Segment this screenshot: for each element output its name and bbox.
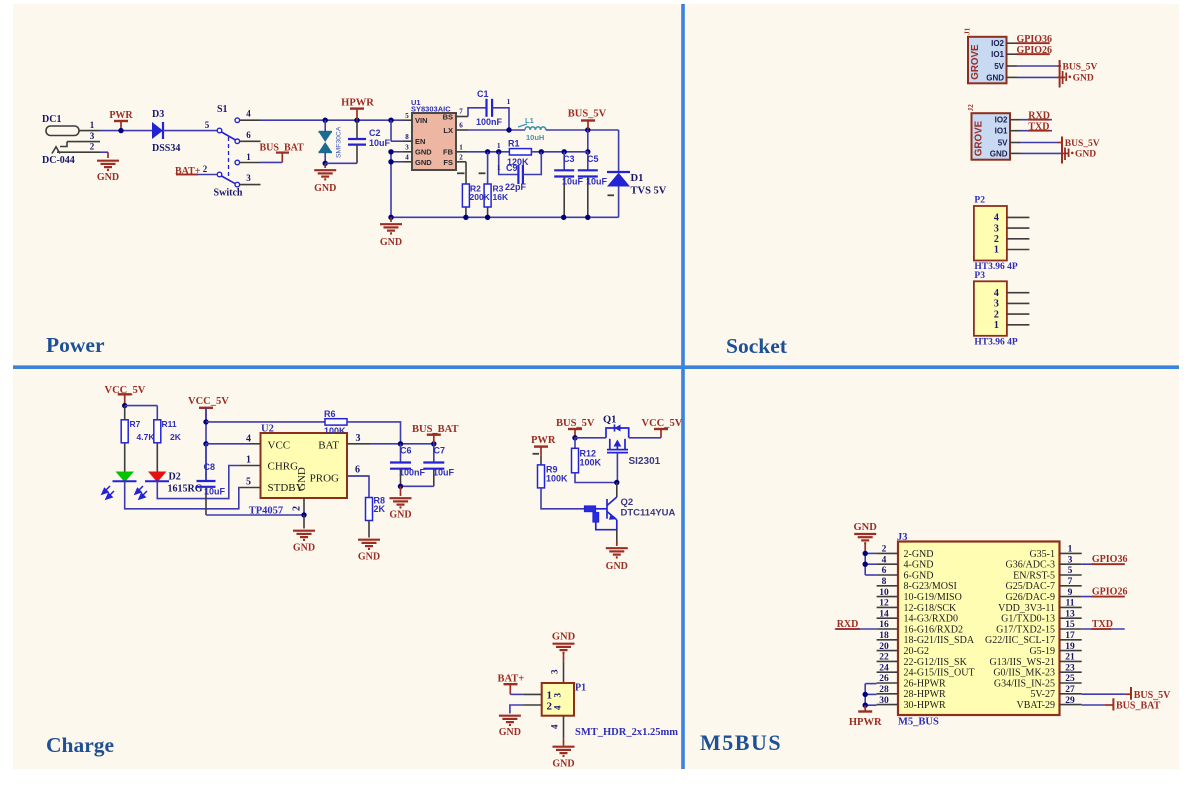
LED D2 red half	[156, 443, 158, 472]
svg-text:2K: 2K	[170, 432, 182, 442]
svg-text:TXD: TXD	[1028, 122, 1049, 133]
svg-text:GND: GND	[314, 183, 336, 194]
svg-text:C6: C6	[400, 446, 412, 456]
svg-text:DC-044: DC-044	[42, 155, 75, 166]
net label GPIO36 at J3 pin3	[1082, 563, 1125, 565]
capacitor C8 10uF	[205, 444, 207, 481]
inductor L1 10uH	[525, 127, 546, 130]
ground GND under U1 rail	[390, 217, 392, 222]
svg-text:GND: GND	[296, 467, 308, 491]
svg-text:2: 2	[292, 506, 303, 511]
svg-text:29: 29	[1065, 696, 1075, 706]
svg-text:BUS_5V: BUS_5V	[556, 418, 595, 429]
svg-text:DSS34: DSS34	[152, 143, 180, 154]
svg-text:R6: R6	[324, 409, 336, 419]
svg-text:1615RG: 1615RG	[168, 484, 203, 495]
P1 pin 3 stub top	[563, 662, 565, 683]
wire DC1 pin1 to PWR node	[99, 130, 152, 132]
svg-text:GND: GND	[380, 237, 402, 248]
svg-text:16-G16/RXD2: 16-G16/RXD2	[904, 624, 963, 635]
junction TVS bottom	[323, 161, 328, 166]
svg-text:M5BUS: M5BUS	[700, 730, 782, 755]
switch pin 3 stub	[240, 184, 261, 186]
svg-text:17: 17	[1065, 631, 1075, 641]
svg-text:BUS_5V: BUS_5V	[1065, 139, 1100, 149]
svg-text:R7: R7	[130, 419, 141, 429]
ground GND under C6	[400, 486, 402, 496]
J3 right pin names	[985, 549, 1055, 711]
DC1 pin 2 contact	[52, 147, 60, 154]
svg-text:18-G21/IIS_SDA: 18-G21/IIS_SDA	[904, 635, 975, 646]
wire J3 HPWR strap pins 26/28/30	[865, 683, 876, 685]
svg-text:G22/IIC_SCL-17: G22/IIC_SCL-17	[985, 635, 1055, 646]
svg-text:J1: J1	[964, 27, 972, 35]
svg-text:GND: GND	[97, 172, 119, 183]
wire BUS_5V to Q1 source	[575, 437, 606, 439]
svg-text:C3: C3	[563, 154, 575, 164]
svg-text:28-HPWR: 28-HPWR	[904, 689, 947, 700]
svg-text:26: 26	[879, 674, 889, 684]
ground GND below P1	[563, 739, 565, 746]
svg-text:5: 5	[205, 120, 210, 130]
svg-text:S1: S1	[217, 104, 228, 115]
svg-text:100K: 100K	[546, 474, 568, 484]
svg-text:10-G19/MISO: 10-G19/MISO	[904, 592, 962, 603]
svg-text:C7: C7	[434, 446, 446, 456]
svg-text:Power: Power	[46, 333, 105, 357]
LED D2 green half	[124, 443, 126, 472]
svg-text:5: 5	[246, 477, 251, 488]
svg-text:7: 7	[459, 108, 463, 116]
svg-text:GND: GND	[293, 543, 315, 554]
resistor R8 2K	[347, 476, 369, 498]
svg-text:5V-27: 5V-27	[1030, 689, 1055, 700]
svg-text:DTC114YUA: DTC114YUA	[621, 508, 676, 519]
svg-text:4: 4	[405, 154, 409, 162]
svg-text:GND: GND	[499, 727, 521, 738]
svg-text:D1: D1	[631, 173, 644, 184]
U2 pin 5 stub	[240, 487, 261, 489]
svg-text:L1: L1	[525, 116, 534, 125]
svg-text:P3: P3	[974, 271, 985, 281]
svg-text:G25/DAC-7: G25/DAC-7	[1006, 581, 1055, 592]
svg-text:C1: C1	[477, 89, 489, 99]
capacitor C9 22pF	[499, 152, 519, 175]
svg-text:2: 2	[994, 309, 999, 320]
no-ERC mark R3	[479, 172, 486, 174]
svg-text:27: 27	[1065, 685, 1075, 695]
svg-text:GND: GND	[358, 552, 380, 563]
svg-text:GND: GND	[990, 149, 1008, 158]
U2 pin 2 GND stub	[303, 498, 305, 515]
svg-text:4: 4	[994, 213, 999, 224]
svg-text:13: 13	[1065, 609, 1075, 619]
wire J3 GND strap pins 2/4/6	[864, 553, 866, 575]
net label TXD at J3 pin15	[1082, 628, 1125, 630]
wire C6/C7 bottoms	[401, 485, 434, 487]
U1 pin 7 BS stub	[456, 116, 468, 118]
connector J1 GROVE socket	[968, 37, 1007, 84]
svg-text:100nF: 100nF	[399, 468, 426, 478]
svg-text:D3: D3	[152, 109, 164, 120]
wire VCC to U2 pin4	[206, 443, 249, 445]
svg-text:6-GND: 6-GND	[904, 570, 934, 581]
svg-text:2: 2	[90, 142, 95, 152]
svg-text:C5: C5	[587, 154, 599, 164]
U2 pin 1 stub	[240, 465, 261, 467]
svg-text:2K: 2K	[374, 504, 386, 514]
svg-text:BUS_BAT: BUS_BAT	[1116, 701, 1161, 712]
section divider horizontal	[13, 365, 1179, 369]
U1 pin 5 VIN stub	[404, 119, 413, 121]
svg-text:GND: GND	[415, 158, 432, 167]
svg-text:6: 6	[882, 566, 887, 576]
svg-text:22pF: 22pF	[505, 182, 527, 192]
transistor Q2 DTC114YUA	[616, 483, 618, 498]
svg-text:GND: GND	[552, 632, 576, 643]
svg-text:24-G15/IIS_OUT: 24-G15/IIS_OUT	[904, 668, 975, 679]
switch link dashed	[228, 137, 230, 180]
svg-text:VDD_3V3-11: VDD_3V3-11	[998, 603, 1055, 614]
net label RXD on J2 IO2	[1021, 119, 1053, 121]
svg-text:5: 5	[1068, 566, 1073, 576]
svg-text:D2: D2	[169, 472, 181, 483]
Q2 emitter arrow	[609, 515, 616, 520]
Q1 body diode arrow	[615, 425, 621, 432]
svg-text:BUS_5V: BUS_5V	[1063, 63, 1098, 73]
svg-text:VBAT-29: VBAT-29	[1016, 700, 1055, 711]
wire DC1 pin2 to ground	[100, 151, 108, 153]
DC1 pin 1	[79, 130, 99, 132]
svg-text:8-G23/MOSI: 8-G23/MOSI	[904, 581, 957, 592]
wire Q2 emitter to ground	[616, 530, 618, 545]
svg-text:C9: C9	[506, 163, 518, 173]
svg-text:100K: 100K	[580, 458, 602, 468]
svg-text:BAT+: BAT+	[498, 674, 525, 685]
svg-text:14-G3/RXD0: 14-G3/RXD0	[904, 614, 958, 625]
J3 left pin stubs and numbers	[877, 552, 898, 554]
svg-text:BUS_5V: BUS_5V	[568, 109, 607, 120]
svg-text:VCC: VCC	[268, 440, 291, 452]
net label GPIO36 on J1 IO2	[1017, 42, 1050, 44]
wire switch pin1 to BUS_BAT	[261, 161, 283, 163]
svg-text:GND: GND	[986, 73, 1004, 82]
svg-text:3: 3	[246, 173, 251, 183]
svg-text:PROG: PROG	[310, 473, 339, 485]
svg-text:1: 1	[497, 164, 501, 172]
no-ERC mark D1	[608, 194, 615, 196]
svg-text:11: 11	[1066, 599, 1075, 609]
svg-text:1: 1	[497, 142, 501, 150]
svg-text:G13/IIS_WS-21: G13/IIS_WS-21	[989, 657, 1055, 668]
svg-text:IO1: IO1	[995, 127, 1008, 136]
svg-text:5V: 5V	[994, 62, 1004, 71]
wire BUS_5V down to output net	[587, 130, 589, 152]
svg-text:BAT+: BAT+	[175, 166, 201, 177]
P1 pin 1 stub	[523, 693, 542, 695]
svg-text:HPWR: HPWR	[341, 98, 374, 109]
svg-text:10: 10	[879, 588, 889, 598]
connector J2 GROVE socket	[972, 113, 1011, 160]
svg-text:1: 1	[507, 98, 511, 106]
svg-text:22-G12/IIS_SK: 22-G12/IIS_SK	[904, 657, 968, 668]
svg-text:1: 1	[246, 152, 251, 162]
svg-text:GND: GND	[854, 522, 878, 533]
resistor R12 100K	[574, 438, 576, 449]
wire P1 pin2 to ground	[510, 705, 523, 714]
U1 pin 4 GND stub	[404, 161, 413, 163]
svg-text:IO2: IO2	[991, 39, 1004, 48]
svg-text:10uF: 10uF	[204, 487, 226, 497]
switch blade upper	[222, 132, 236, 140]
svg-text:8: 8	[882, 577, 887, 587]
ground GND under R8	[358, 540, 380, 549]
svg-text:Q2: Q2	[621, 497, 634, 508]
svg-text:SI2301: SI2301	[629, 456, 661, 467]
svg-text:21: 21	[1065, 653, 1075, 663]
svg-text:25: 25	[1065, 674, 1075, 684]
J3 left pin names	[904, 549, 975, 711]
svg-text:3: 3	[356, 433, 361, 444]
svg-text:HT3.96 4P: HT3.96 4P	[974, 337, 1017, 347]
svg-text:GPIO36: GPIO36	[1017, 34, 1053, 45]
svg-text:4: 4	[994, 288, 999, 299]
svg-text:2: 2	[882, 545, 887, 555]
svg-text:G1/TXD0-13: G1/TXD0-13	[1001, 614, 1055, 625]
TVS diode SMF30CA	[319, 132, 333, 142]
svg-text:5V: 5V	[998, 139, 1008, 148]
svg-text:24: 24	[879, 663, 889, 673]
svg-text:10uF: 10uF	[369, 138, 391, 148]
Q2 base resistor horizontal	[585, 506, 596, 512]
net label GPIO26 at J3 pin9	[1082, 596, 1125, 598]
svg-text:M5_BUS: M5_BUS	[898, 717, 939, 728]
svg-text:1: 1	[994, 320, 999, 331]
switch pin 6 stub	[240, 140, 261, 142]
capacitor C1 100nF bootstrap	[468, 108, 487, 117]
net label TXD on J2 IO1	[1021, 130, 1053, 132]
svg-text:GPIO26: GPIO26	[1017, 45, 1053, 56]
svg-text:1: 1	[246, 455, 251, 466]
wire U1 GND pins to ground rail	[391, 151, 404, 153]
net label GPIO26 on J1 IO1	[1017, 53, 1050, 55]
svg-text:Switch: Switch	[214, 188, 243, 199]
junction HPWR	[354, 118, 359, 123]
svg-text:1: 1	[90, 120, 95, 130]
svg-text:G5-19: G5-19	[1029, 646, 1055, 657]
svg-text:3: 3	[405, 144, 409, 152]
J3 right pin stubs and numbers	[1060, 552, 1082, 554]
svg-text:RXD: RXD	[1028, 111, 1050, 122]
port BUS_BAT at J3 pin29	[1082, 704, 1105, 706]
svg-text:PWR: PWR	[531, 435, 556, 446]
svg-text:10uH: 10uH	[526, 133, 544, 142]
svg-text:GND: GND	[1073, 74, 1094, 84]
P1 pin 4 stub bottom	[563, 716, 565, 739]
svg-text:GND: GND	[552, 759, 574, 770]
resistor R3 16K	[487, 152, 489, 184]
U1 pin 8 EN stub	[390, 120, 392, 141]
U2 pin 6 PROG stub	[347, 475, 369, 477]
wire VCC to R6	[206, 421, 325, 423]
U2 pin 4 stub	[249, 443, 261, 445]
svg-text:14: 14	[879, 609, 889, 619]
svg-text:18: 18	[879, 631, 889, 641]
diode D3 DSS34	[152, 122, 163, 139]
capacitor C7 10uF	[433, 444, 435, 463]
svg-text:FB: FB	[443, 148, 454, 157]
svg-text:BAT: BAT	[318, 440, 339, 452]
resistor R7 4.7K	[121, 420, 128, 443]
svg-text:P1: P1	[575, 683, 586, 694]
svg-text:G17/TXD2-15: G17/TXD2-15	[996, 624, 1055, 635]
svg-text:EN: EN	[415, 137, 425, 146]
LED D2 green arrows	[102, 486, 114, 499]
svg-text:16K: 16K	[493, 192, 509, 202]
wire green LED to STDBY	[125, 481, 240, 509]
svg-text:GROVE: GROVE	[974, 120, 985, 156]
svg-text:BUS_5V: BUS_5V	[1134, 690, 1171, 701]
wire Q1 drain to VCC_5V	[629, 437, 661, 439]
wire C8 to U2 GND	[206, 514, 304, 516]
wire red LED to CHRG	[157, 466, 240, 499]
Q2 base-emitter resistor vertical	[593, 513, 599, 523]
svg-text:G36/ADC-3: G36/ADC-3	[1006, 560, 1055, 571]
svg-text:SMT_HDR_2x1.25mm: SMT_HDR_2x1.25mm	[575, 727, 678, 738]
wire VCC_5V column	[205, 408, 207, 481]
svg-text:4: 4	[882, 555, 887, 565]
power port HPWR at J3	[864, 705, 866, 711]
svg-text:4: 4	[553, 705, 563, 710]
svg-text:30-HPWR: 30-HPWR	[904, 700, 947, 711]
svg-text:1: 1	[459, 144, 463, 152]
capacitor C6 100nF	[400, 444, 402, 463]
svg-text:C2: C2	[369, 128, 381, 138]
no-ERC mark near PWR	[533, 453, 540, 455]
svg-text:PWR: PWR	[109, 110, 133, 121]
svg-text:3: 3	[994, 223, 999, 234]
ground GND at DC jack	[97, 161, 119, 170]
wire L1 to BUS_5V node	[546, 129, 619, 131]
svg-text:J2: J2	[967, 104, 975, 112]
svg-text:28: 28	[879, 685, 889, 695]
ground GND left of P1	[499, 716, 521, 725]
svg-text:30: 30	[879, 696, 889, 706]
wire J2 GND to GND port	[1021, 152, 1063, 154]
resistor R6 100K	[325, 419, 347, 425]
net label RXD at J3 pin16	[835, 628, 877, 630]
wire D3 cathode to switch pin5	[163, 130, 217, 132]
ground GND under TVS	[324, 163, 326, 168]
svg-text:EN/RST-5: EN/RST-5	[1013, 570, 1055, 581]
no-ERC mark R2	[457, 172, 465, 174]
svg-text:G26/DAC-9: G26/DAC-9	[1006, 592, 1055, 603]
svg-text:6: 6	[246, 130, 251, 140]
svg-text:TVS 5V: TVS 5V	[631, 186, 667, 197]
svg-text:Charge: Charge	[46, 733, 114, 757]
svg-text:IO1: IO1	[991, 50, 1004, 59]
svg-text:VCC_5V: VCC_5V	[188, 396, 229, 407]
svg-text:19: 19	[1065, 642, 1075, 652]
svg-text:200K: 200K	[470, 192, 491, 202]
svg-text:3: 3	[90, 131, 95, 141]
wire Q1 gate down	[616, 453, 618, 483]
svg-text:G34/IIS_IN-25: G34/IIS_IN-25	[994, 678, 1055, 689]
wire FB feedback line	[466, 151, 509, 153]
svg-text:16: 16	[879, 620, 889, 630]
switch pin 1 stub	[240, 162, 261, 164]
svg-text:R1: R1	[508, 139, 520, 149]
capacitor C5 10uF	[587, 152, 589, 171]
svg-text:4.7K: 4.7K	[137, 432, 156, 442]
wire J1 5V to BUS_5V port	[1017, 65, 1058, 67]
switch blade lower	[222, 176, 236, 184]
svg-text:3: 3	[1068, 555, 1073, 565]
capacitor C3 10uF	[563, 152, 565, 171]
svg-text:4: 4	[550, 724, 560, 729]
svg-text:2: 2	[459, 154, 463, 162]
svg-text:4: 4	[246, 109, 251, 119]
svg-text:26-HPWR: 26-HPWR	[904, 678, 947, 689]
svg-text:12-G18/SCK: 12-G18/SCK	[904, 603, 958, 614]
svg-text:GND: GND	[389, 510, 411, 521]
svg-text:1: 1	[994, 245, 999, 256]
svg-text:7: 7	[1068, 577, 1073, 587]
junction node PWR	[118, 128, 123, 133]
svg-text:22: 22	[879, 653, 889, 663]
wire R12 to gate node	[575, 473, 617, 483]
svg-text:BUS_BAT: BUS_BAT	[412, 424, 459, 435]
svg-text:100K: 100K	[324, 426, 346, 436]
ground rail of regulator	[391, 216, 619, 218]
section divider vertical	[681, 4, 685, 769]
svg-text:4: 4	[246, 434, 251, 445]
junction TVS top	[323, 118, 328, 123]
svg-text:10uF: 10uF	[562, 177, 584, 187]
svg-text:C8: C8	[204, 462, 216, 472]
resistor R9 100K	[540, 456, 542, 465]
capacitor C2 10uF	[356, 120, 358, 139]
svg-text:FS: FS	[443, 158, 453, 167]
resistor R2 200K	[465, 162, 467, 184]
svg-text:CHRG: CHRG	[268, 461, 299, 473]
port BUS_5V at J2	[1061, 137, 1063, 164]
TVS diode D1 TVS5V	[618, 130, 620, 172]
svg-text:3: 3	[550, 669, 560, 674]
svg-text:GROVE: GROVE	[970, 44, 981, 80]
svg-text:9: 9	[1068, 588, 1073, 598]
svg-text:100nF: 100nF	[476, 117, 503, 127]
wire R1 to output	[531, 151, 587, 153]
U1 pin 6 LX stub	[456, 129, 468, 131]
port BUS_5V at J1	[1059, 60, 1061, 88]
connector P1 SMT_HDR	[542, 683, 574, 716]
ground GND under Q2	[606, 548, 628, 557]
svg-text:12: 12	[879, 599, 889, 609]
svg-text:2-GND: 2-GND	[904, 549, 934, 560]
svg-text:2: 2	[203, 164, 208, 174]
wire BAT to BUS_BAT	[370, 443, 434, 445]
svg-text:G35-1: G35-1	[1029, 549, 1055, 560]
svg-text:10uF: 10uF	[586, 177, 608, 187]
U1 pin 3 GND stub	[404, 151, 413, 153]
svg-text:P2: P2	[974, 196, 985, 206]
wire J2 5V to BUS_5V port	[1021, 142, 1058, 144]
U1 pin 2 FS stub	[456, 161, 466, 163]
svg-text:HPWR: HPWR	[849, 717, 882, 728]
svg-text:R11: R11	[162, 419, 177, 429]
svg-text:5: 5	[405, 112, 409, 120]
